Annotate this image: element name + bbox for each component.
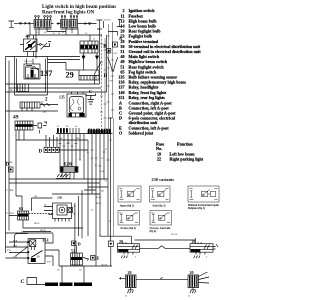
svg-text:29: 29 <box>66 71 74 80</box>
svg-text:22: 22 <box>157 157 161 162</box>
svg-text:151: 151 <box>42 237 50 242</box>
svg-text:230: 230 <box>57 196 62 200</box>
svg-text:(fig 6): (fig 6) <box>150 230 157 233</box>
svg-text:230 variants: 230 variants <box>152 177 175 182</box>
svg-text:A: A <box>119 37 123 42</box>
connector on wire <box>20 22 22 24</box>
svg-text:30: 30 <box>37 255 41 259</box>
svg-text:137: 137 <box>40 69 52 78</box>
rear foglight bulb 20 right wagon <box>188 270 209 293</box>
fusebox 11 <box>80 41 98 53</box>
rear foglight bulb 20 left wagon <box>119 270 136 293</box>
svg-text:105-10: 105-10 <box>104 20 111 22</box>
variant box Holland/Switzerland/Spain/Belgium <box>188 186 219 202</box>
svg-text:Soldered joint: Soldered joint <box>129 131 154 136</box>
legend list <box>118 8 201 100</box>
svg-text:Belgium (fig 4): Belgium (fig 4) <box>188 207 205 210</box>
svg-text:Relay, rear fog lights: Relay, rear fog lights <box>129 95 166 100</box>
title <box>42 5 116 16</box>
svg-text:VO-W: VO-W <box>101 264 108 266</box>
svg-text:C: C <box>89 89 92 94</box>
svg-text:D: D <box>78 242 81 247</box>
svg-text:VO-W: VO-W <box>171 234 178 236</box>
svg-text:Y-R: Y-R <box>47 262 51 264</box>
connector D small <box>72 241 77 246</box>
svg-text:SB: SB <box>11 190 14 192</box>
svg-text:BL-R: BL-R <box>10 90 16 92</box>
variant box France <box>118 211 140 226</box>
connector E <box>91 256 96 261</box>
svg-text:2x 1.5 R: 2x 1.5 R <box>24 61 32 63</box>
svg-text:France (fig 5): France (fig 5) <box>121 227 137 230</box>
svg-text:20: 20 <box>128 270 132 275</box>
small box in frame <box>18 84 29 92</box>
relay 137 <box>24 64 40 79</box>
connector column A (right A-post) <box>117 20 122 27</box>
svg-text:E: E <box>97 256 100 261</box>
svg-text:M 58: M 58 <box>96 203 102 205</box>
connector letters legend <box>119 101 176 136</box>
svg-text:65: 65 <box>19 206 23 211</box>
svg-text:48: 48 <box>26 34 31 39</box>
svg-text:SB-W: SB-W <box>40 230 47 232</box>
svg-text:D: D <box>104 74 108 79</box>
long horizontals <box>9 179 108 183</box>
svg-text:distribution unit: distribution unit <box>129 120 158 125</box>
svg-text:Light switch in high beam posi: Light switch in high beam position <box>42 5 116 10</box>
svg-text:Function: Function <box>177 142 193 147</box>
switch arm 7 <box>41 42 52 50</box>
svg-text:Y-R: Y-R <box>13 256 17 258</box>
svg-text:C: C <box>21 279 25 285</box>
variant box Italy <box>150 186 171 202</box>
fusebox arrows <box>48 53 98 63</box>
svg-text:No.: No. <box>156 146 162 151</box>
wire colour code labels <box>7 20 208 298</box>
svg-text:Right parking light: Right parking light <box>170 157 204 162</box>
svg-text:GR: GR <box>34 196 38 198</box>
svg-text:20: 20 <box>190 270 194 275</box>
svg-text:D: D <box>39 150 43 155</box>
svg-text:SB: SB <box>101 191 104 193</box>
wire VO-W to rear lights <box>59 265 112 267</box>
arrow to connector E <box>83 258 89 261</box>
top bus line <box>30 34 102 36</box>
left headlight unit symbol <box>9 21 17 27</box>
svg-text:151: 151 <box>118 95 124 100</box>
frame line lower <box>16 130 88 211</box>
svg-text:Rear/front fog lights ON: Rear/front fog lights ON <box>42 11 95 16</box>
pin row D top <box>56 133 113 135</box>
svg-text:SB W: SB W <box>34 223 40 225</box>
vertical wires mid <box>60 134 84 180</box>
svg-text:Italy (fig 3): Italy (fig 3) <box>153 204 166 207</box>
svg-text:6-R: 6-R <box>110 81 114 83</box>
svg-text:D: D <box>119 116 122 121</box>
headlamp cluster left 13/14 <box>34 16 54 29</box>
svg-text:GR: GR <box>11 213 15 215</box>
rear foglight bulb 20 right sedan <box>190 238 218 258</box>
rear foglight bulb 20 left sedan <box>118 236 140 258</box>
bus lines mid <box>6 84 107 92</box>
variant box Japan <box>118 186 141 202</box>
distribution unit frame <box>15 57 48 96</box>
headlamp cluster right 13/14 <box>57 16 97 29</box>
svg-text:Y-R: Y-R <box>21 231 25 233</box>
fuse table <box>156 142 204 162</box>
svg-text:O: O <box>119 131 122 136</box>
svg-text:GR: GR <box>76 138 80 140</box>
svg-text:W-R: W-R <box>13 240 18 242</box>
svg-text:Japan (fig 2): Japan (fig 2) <box>120 204 135 207</box>
wire between rear bulbs sedan + break <box>140 246 191 249</box>
wire between wagon bulbs <box>136 277 188 279</box>
svg-text:10 30: 10 30 <box>96 197 102 199</box>
right pillar symbol <box>97 20 104 29</box>
svg-text:49: 49 <box>13 115 19 121</box>
svg-text:20: 20 <box>192 239 196 244</box>
svg-text:135: 135 <box>59 96 65 100</box>
svg-text:20: 20 <box>119 239 123 244</box>
variant box Norway/Australia <box>150 211 172 226</box>
